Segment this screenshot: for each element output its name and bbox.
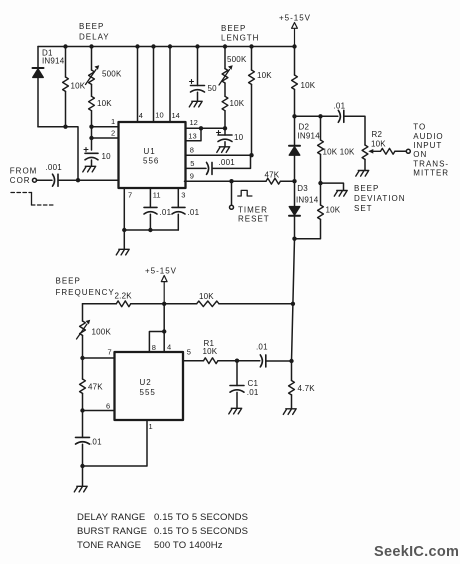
capacitor .01 top right xyxy=(321,102,366,146)
svg-text:IN914: IN914 xyxy=(296,196,319,205)
potentiometer 500K beep delay xyxy=(86,44,122,84)
node bottom left xyxy=(80,464,84,468)
svg-text:4: 4 xyxy=(167,342,171,351)
svg-text:9: 9 xyxy=(190,172,194,181)
wire U2 pin 7 xyxy=(80,347,114,360)
svg-text:IN914: IN914 xyxy=(42,57,65,66)
logo SeekIC.com xyxy=(374,544,459,560)
node D3 bottom xyxy=(292,237,296,241)
svg-text:.01: .01 xyxy=(256,343,268,352)
svg-text:.01: .01 xyxy=(247,388,259,397)
node junction D1/10K xyxy=(63,125,67,129)
node D2/D3/47K xyxy=(292,179,296,183)
svg-text:INPUT: INPUT xyxy=(413,141,442,150)
ground under C1 xyxy=(229,408,242,414)
wire U1 pin 10 xyxy=(151,44,163,122)
capacitor .001 at pin 5 xyxy=(186,155,251,174)
ground bottom left xyxy=(74,466,87,492)
resistor 4.7K xyxy=(289,361,316,409)
svg-text:13: 13 xyxy=(188,132,196,141)
resistor 10K right xyxy=(292,75,316,119)
svg-text:555: 555 xyxy=(140,388,156,397)
svg-text:.01: .01 xyxy=(334,102,346,111)
svg-text:10K: 10K xyxy=(199,292,214,301)
svg-text:6: 6 xyxy=(106,401,110,410)
svg-text:FREQUENCY: FREQUENCY xyxy=(56,288,115,297)
svg-text:FROM: FROM xyxy=(10,167,38,176)
svg-text:10K: 10K xyxy=(371,139,386,148)
resistor 10K under 500K pot xyxy=(89,84,113,150)
svg-text:500K: 500K xyxy=(227,55,247,64)
svg-text:3: 3 xyxy=(181,191,185,200)
svg-text:2: 2 xyxy=(111,129,115,138)
svg-text:100K: 100K xyxy=(92,328,112,337)
svg-text:.001: .001 xyxy=(219,158,236,167)
label tone range row xyxy=(77,540,223,551)
ground under deviation pot xyxy=(356,171,369,177)
svg-text:10K: 10K xyxy=(326,206,341,215)
svg-text:10K: 10K xyxy=(257,71,272,80)
wire U2 pin 5 with resistor R1 10K xyxy=(183,339,239,364)
capacitor .01 at pin 3 xyxy=(172,188,200,230)
resistor 47K xyxy=(80,358,104,411)
label delay range row xyxy=(77,512,248,523)
wire to dropping network xyxy=(295,114,323,118)
svg-text:TONE RANGE: TONE RANGE xyxy=(77,540,141,551)
wire U1 pin 8 xyxy=(186,145,254,157)
power +5-15V top xyxy=(279,14,311,47)
svg-text:U2: U2 xyxy=(140,378,152,387)
wire U2 pin 1 xyxy=(83,420,153,466)
wire U1 pin 1 xyxy=(89,117,118,129)
label burst range row xyxy=(77,526,248,537)
label TO AUDIO INPUT ON TRANSMITTER xyxy=(413,123,449,178)
svg-text:BEEP: BEEP xyxy=(221,24,246,33)
svg-text:4.7K: 4.7K xyxy=(298,384,316,393)
wire main right vertical from rail xyxy=(292,44,296,75)
svg-text:500K: 500K xyxy=(102,70,122,79)
ground U1 xyxy=(116,230,129,255)
potentiometer 10K deviation xyxy=(362,145,380,170)
wire top supply rail xyxy=(38,46,295,48)
wire D1 bottom to COR node xyxy=(38,127,78,181)
terminal FROM COR xyxy=(10,167,38,186)
ground under pin12 cap xyxy=(217,147,230,153)
svg-text:SET: SET xyxy=(354,204,373,213)
capacitor C1 .01 xyxy=(230,361,259,408)
svg-text:10K: 10K xyxy=(71,82,86,91)
svg-text:TIMER: TIMER xyxy=(238,205,268,214)
svg-text:BURST RANGE: BURST RANGE xyxy=(77,526,147,537)
wire U2 pins 8-4 supply loop xyxy=(149,304,171,352)
svg-text:5: 5 xyxy=(187,348,191,357)
svg-text:10K: 10K xyxy=(97,99,112,108)
svg-text:47K: 47K xyxy=(265,171,280,180)
op-amp U1 556 xyxy=(119,122,186,188)
svg-text:8: 8 xyxy=(190,145,194,154)
svg-text:COR: COR xyxy=(10,176,31,185)
svg-text:10K: 10K xyxy=(203,347,218,356)
svg-text:1: 1 xyxy=(149,422,153,431)
svg-text:.001: .001 xyxy=(46,163,63,172)
wire U2 pin 6 xyxy=(80,401,114,412)
potentiometer 500K beep length xyxy=(219,44,247,85)
svg-text:SeekIC.com: SeekIC.com xyxy=(374,544,459,560)
resistor R2 10K xyxy=(371,130,410,154)
svg-text:10K: 10K xyxy=(230,99,245,108)
svg-text:BEEP: BEEP xyxy=(56,277,81,286)
capacitor .01 lower left xyxy=(76,411,103,467)
diode D1 xyxy=(33,47,44,127)
diode D3 xyxy=(289,181,319,239)
svg-text:4: 4 xyxy=(139,111,143,120)
svg-text:.01: .01 xyxy=(160,208,172,217)
svg-text:DELAY: DELAY xyxy=(79,32,110,41)
svg-text:BEEP: BEEP xyxy=(354,184,379,193)
svg-text:556: 556 xyxy=(143,157,159,166)
svg-text:U1: U1 xyxy=(144,147,156,156)
ground under 10uF xyxy=(83,166,96,172)
svg-text:DELAY RANGE: DELAY RANGE xyxy=(77,512,145,523)
label BEEP FREQUENCY xyxy=(56,277,115,298)
svg-text:11: 11 xyxy=(153,190,161,199)
svg-text:AUDIO: AUDIO xyxy=(413,132,443,141)
resistor 10K deviation lower xyxy=(295,183,341,239)
resistor 10K (beep delay) xyxy=(63,44,86,126)
svg-text:.01: .01 xyxy=(188,208,200,217)
svg-text:1: 1 xyxy=(111,117,115,126)
svg-text:10K 10K: 10K 10K xyxy=(323,147,356,156)
wire U1 pin 13 loop xyxy=(186,128,202,141)
ground under 50uF xyxy=(189,101,202,107)
svg-text:10: 10 xyxy=(155,111,163,120)
svg-text:R2: R2 xyxy=(372,130,383,139)
svg-text:500 TO 1400Hz: 500 TO 1400Hz xyxy=(154,540,223,551)
svg-text:2.2K: 2.2K xyxy=(115,292,133,301)
label BEEP LENGTH xyxy=(221,24,259,42)
potentiometer 100K xyxy=(77,304,112,358)
svg-text:DEVIATION: DEVIATION xyxy=(354,194,406,203)
svg-text:10: 10 xyxy=(234,133,244,142)
svg-text:.01: .01 xyxy=(90,438,102,447)
wire lower supply rail xyxy=(83,292,293,307)
svg-text:5: 5 xyxy=(190,159,194,168)
svg-text:47K: 47K xyxy=(88,383,103,392)
COR waveform glyph xyxy=(11,193,54,206)
ground beep deviation xyxy=(321,183,348,196)
wire U1 pin 2 xyxy=(89,129,118,141)
svg-text:D2: D2 xyxy=(299,123,310,132)
label D1 IN914 xyxy=(42,49,65,66)
svg-text:50: 50 xyxy=(208,84,218,93)
label BEEP DEVIATION SET xyxy=(354,184,406,213)
capacitor .01 at pin 11 xyxy=(144,188,172,230)
svg-text:10: 10 xyxy=(102,152,112,161)
svg-text:D3: D3 xyxy=(297,184,308,193)
capacitor 10uF at pin 12 xyxy=(217,128,244,146)
node rail right xyxy=(291,302,295,306)
wire U1 pin 9 with resistor 47K xyxy=(185,171,295,185)
svg-text:10K: 10K xyxy=(301,81,316,90)
ground under 4.7K xyxy=(283,409,296,415)
wire U1 ground bus xyxy=(122,228,178,232)
svg-text:12: 12 xyxy=(190,118,198,127)
svg-text:8: 8 xyxy=(152,343,156,352)
svg-text:LENGTH: LENGTH xyxy=(221,33,259,42)
svg-text:IN914: IN914 xyxy=(298,132,321,141)
wire U1 pin 12 xyxy=(186,118,228,131)
wire U1 pin 4 xyxy=(135,44,143,122)
resistor 10K deviation upper xyxy=(318,116,355,185)
wire U1 pin 7 xyxy=(124,188,132,230)
svg-text:14: 14 xyxy=(172,111,180,120)
wire main vertical lower xyxy=(289,239,294,363)
svg-text:+5-15V: +5-15V xyxy=(145,267,177,276)
svg-text:7: 7 xyxy=(128,190,132,199)
svg-text:RESET: RESET xyxy=(238,215,270,224)
capacitor 10uF at pins 1-2 xyxy=(84,148,111,167)
label BEEP DELAY xyxy=(79,22,110,41)
svg-text:TRANS-: TRANS- xyxy=(413,159,449,168)
timer U2 555 xyxy=(115,352,184,420)
capacitor .01 coupling xyxy=(237,343,292,367)
resistor 10K to pin 8 xyxy=(249,44,273,155)
svg-text:BEEP: BEEP xyxy=(79,22,104,31)
svg-text:MITTER: MITTER xyxy=(413,169,449,178)
svg-text:0.15 TO 5 SECONDS: 0.15 TO 5 SECONDS xyxy=(154,526,248,537)
svg-text:ON: ON xyxy=(413,150,427,159)
svg-text:0.15 TO 5 SECONDS: 0.15 TO 5 SECONDS xyxy=(154,512,248,523)
svg-text:+5-15V: +5-15V xyxy=(279,14,311,23)
power +5-15V lower xyxy=(145,267,177,306)
diode D2 xyxy=(289,116,320,181)
timer reset terminal xyxy=(230,181,270,223)
wire U1 pin 14 xyxy=(168,44,180,122)
svg-text:C1: C1 xyxy=(248,379,259,388)
capacitor .001 from COR xyxy=(37,163,119,186)
capacitor 50uF xyxy=(190,44,218,101)
resistor 10K under length pot xyxy=(222,83,245,128)
svg-text:TO: TO xyxy=(413,123,426,132)
svg-text:7: 7 xyxy=(108,347,112,356)
